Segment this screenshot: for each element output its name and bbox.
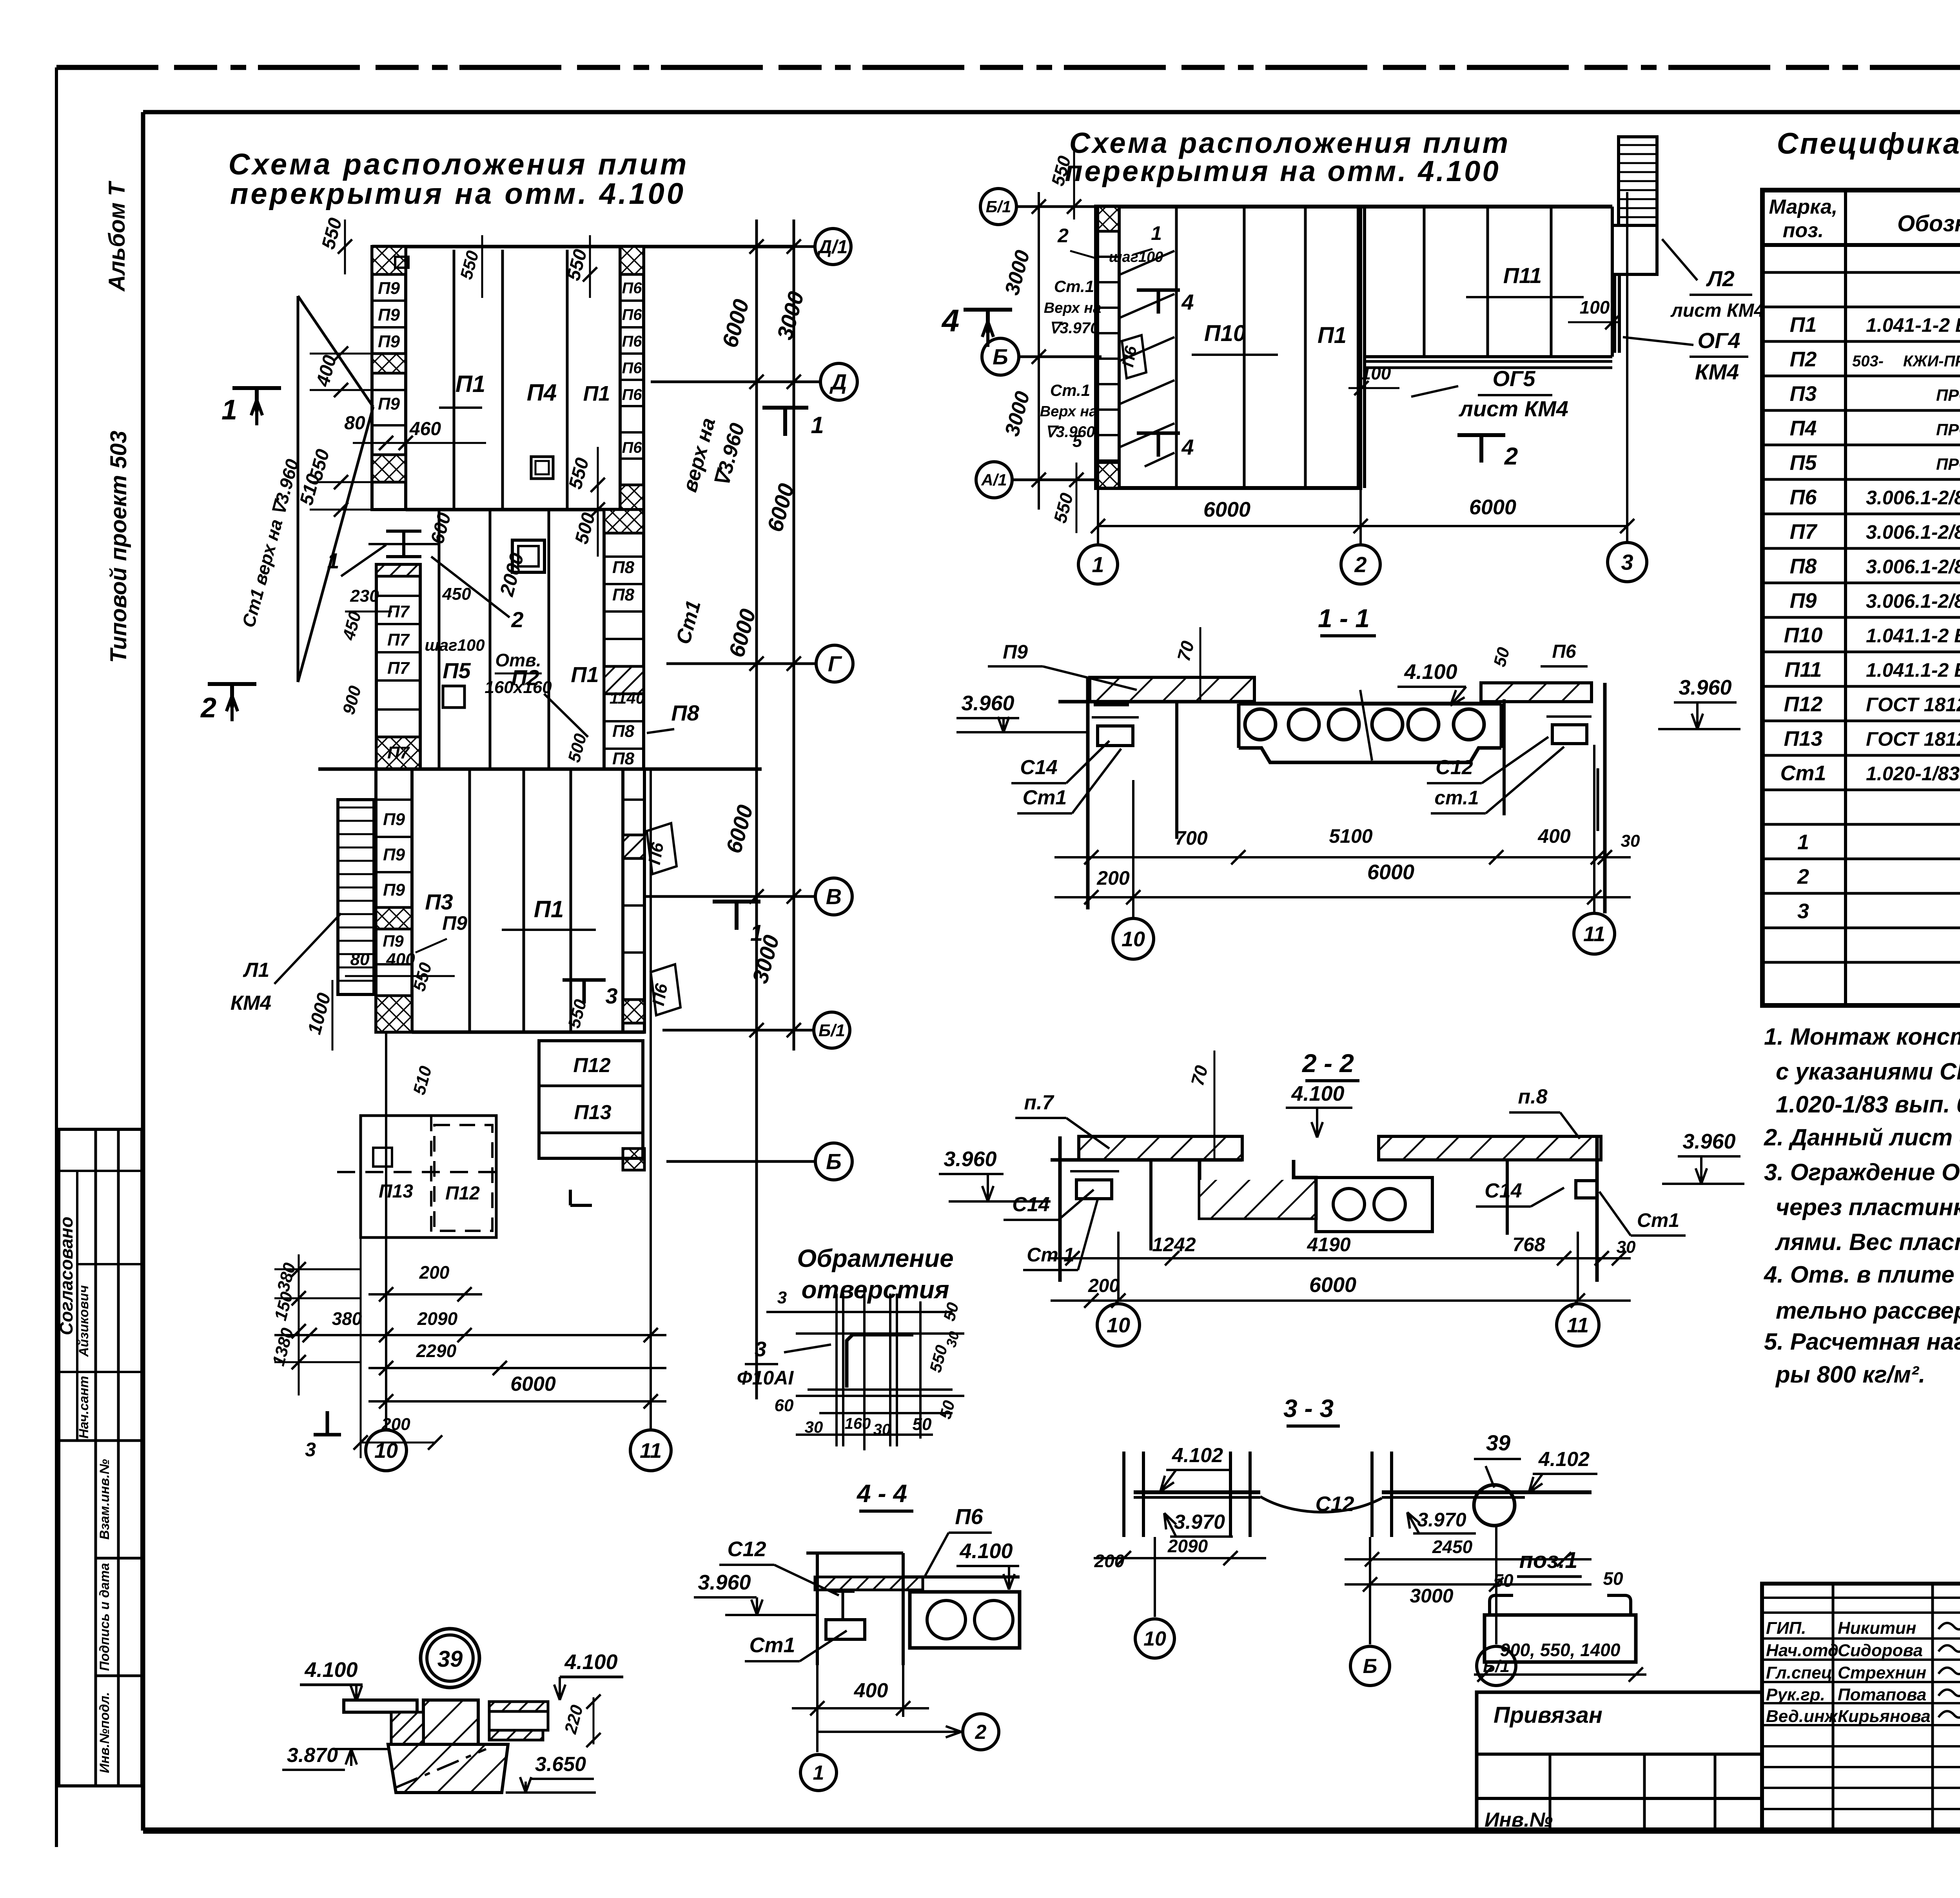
spec table column lines bbox=[1844, 190, 1847, 1005]
axis circle G bbox=[816, 645, 853, 682]
slab edge at axis G bbox=[318, 768, 762, 771]
s22 right wall verticals bbox=[1595, 1136, 1599, 1282]
svg-text:100: 100 bbox=[1580, 297, 1610, 318]
svg-text:П6: П6 bbox=[622, 386, 642, 403]
detail39 lower trapezoid bbox=[388, 1744, 508, 1793]
svg-text:10: 10 bbox=[1107, 1314, 1130, 1337]
slab bottom edge third bay bbox=[412, 1031, 644, 1034]
svg-text:П6: П6 bbox=[622, 333, 642, 350]
plan2 axis line B/1 bbox=[1016, 205, 1102, 208]
svg-text:Ст1: Ст1 bbox=[1780, 761, 1826, 785]
plan2 slab outline bbox=[1096, 207, 1360, 488]
svg-text:1.020-1/83 Вып.7-1: 1.020-1/83 Вып.7-1 bbox=[1866, 762, 1960, 784]
s11 left wall verticals bbox=[1086, 677, 1090, 909]
svg-text:с указаниями СНиПШ-16-80, СНиП: с указаниями СНиПШ-16-80, СНиПШ-15-76 се… bbox=[1776, 1058, 1960, 1085]
s22 floor line left bbox=[1051, 1158, 1242, 1162]
svg-text:1.041.1-2 Вып.1: 1.041.1-2 Вып.1 bbox=[1866, 624, 1960, 646]
svg-text:3.006.1-2/82 Вып.1-2: 3.006.1-2/82 Вып.1-2 bbox=[1866, 590, 1960, 612]
svg-text:4.102: 4.102 bbox=[1172, 1444, 1223, 1467]
svg-text:КМ4: КМ4 bbox=[230, 992, 271, 1014]
svg-text:Взам.инв.№: Взам.инв.№ bbox=[97, 1459, 112, 1540]
svg-text:Кирьянова: Кирьянова bbox=[1838, 1707, 1931, 1726]
svg-text:6000: 6000 bbox=[1203, 498, 1250, 521]
svg-text:Отв.: Отв. bbox=[495, 650, 541, 670]
s33 C12 sag line bbox=[1260, 1497, 1382, 1512]
svg-text:200: 200 bbox=[419, 1262, 450, 1283]
detail39 right slab with bands bbox=[489, 1702, 548, 1711]
svg-text:Б: Б bbox=[826, 1149, 842, 1174]
svg-text:Ст.1: Ст.1 bbox=[1054, 277, 1094, 296]
plan2 axis circle 1 bbox=[1078, 545, 1118, 584]
axis circle 11 left plan bbox=[630, 1430, 671, 1471]
svg-text:2 - 2: 2 - 2 bbox=[1301, 1049, 1354, 1078]
svg-text:Обозначение: Обозначение bbox=[1897, 211, 1960, 236]
svg-text:768: 768 bbox=[1512, 1234, 1545, 1256]
s11 hollow core slab body bbox=[1239, 702, 1501, 706]
svg-text:3.960: 3.960 bbox=[1679, 676, 1731, 699]
svg-text:С14: С14 bbox=[1012, 1193, 1049, 1216]
svg-text:1: 1 bbox=[1151, 222, 1162, 244]
svg-text:п.8: п.8 bbox=[1518, 1085, 1547, 1108]
svg-text:Потапова: Потапова bbox=[1838, 1685, 1926, 1704]
plan2 cut marker 4 inner bottom bbox=[1137, 432, 1180, 435]
s11 right beam seat bbox=[1552, 725, 1587, 744]
svg-text:ОГ4: ОГ4 bbox=[1697, 328, 1740, 353]
s11 left beam seat bbox=[1094, 703, 1129, 706]
svg-text:П9: П9 bbox=[1003, 641, 1028, 663]
svg-text:Альбом Т: Альбом Т bbox=[104, 180, 130, 292]
svg-text:3.970: 3.970 bbox=[1174, 1511, 1225, 1533]
svg-text:П6: П6 bbox=[622, 359, 642, 377]
spec table outer frame bbox=[1762, 190, 1960, 1005]
svg-text:П7: П7 bbox=[387, 630, 410, 650]
svg-text:4.100: 4.100 bbox=[959, 1539, 1013, 1563]
svg-text:поз.: поз. bbox=[1783, 219, 1824, 242]
plan2 cut marker 4 inner top bbox=[1137, 289, 1180, 292]
s44 wall verticals bbox=[816, 1553, 819, 1665]
plan2 axis circle A/1 bbox=[976, 462, 1012, 498]
s11 axis verticals bbox=[1132, 780, 1134, 918]
section cut marker 3 bbox=[563, 978, 606, 982]
s22 left beam seat bbox=[1076, 1180, 1112, 1199]
svg-text:11: 11 bbox=[640, 1439, 662, 1463]
svg-text:Б/1: Б/1 bbox=[818, 1021, 845, 1040]
small hatch square mid wall bbox=[377, 910, 393, 926]
plan2 axis line B bbox=[1018, 356, 1102, 358]
svg-text:С12: С12 bbox=[1315, 1492, 1354, 1516]
s11 axis circle 10 bbox=[1113, 918, 1154, 959]
P12 P13 block bbox=[539, 1041, 643, 1158]
sheet outer border top bbox=[56, 65, 1960, 70]
s44 hatch on slab top bbox=[903, 1575, 1020, 1579]
svg-text:п.7: п.7 bbox=[1024, 1091, 1054, 1114]
svg-text:1: 1 bbox=[327, 548, 339, 573]
plan2 left dim vertical bbox=[1038, 192, 1040, 510]
margin approval table bbox=[59, 1129, 142, 1786]
plan2 stairs top right bbox=[1619, 137, 1657, 225]
plan2 stairs lower part bbox=[1612, 225, 1657, 274]
svg-text:С12: С12 bbox=[1436, 756, 1473, 779]
s44 stolik assembly bbox=[826, 1620, 865, 1639]
hatch cells P9 lower bbox=[376, 907, 412, 929]
axis line D/1 bbox=[651, 245, 815, 248]
svg-text:Сидорова: Сидорова bbox=[1838, 1641, 1923, 1660]
svg-text:П1: П1 bbox=[1318, 323, 1347, 348]
plan2 P1 right edge double line bbox=[1357, 207, 1360, 488]
svg-text:через пластинки -: через пластинки - bbox=[1776, 1194, 1960, 1220]
s11 left floor hatch band bbox=[1090, 677, 1254, 702]
svg-text:2: 2 bbox=[1354, 552, 1367, 577]
s22 axis circle 10 bbox=[1097, 1304, 1140, 1346]
svg-text:П6: П6 bbox=[649, 982, 671, 1007]
plan2 rotated label P6 in wall bbox=[1122, 335, 1146, 378]
svg-text:Гл.спец: Гл.спец bbox=[1766, 1663, 1832, 1682]
svg-text:30: 30 bbox=[873, 1421, 891, 1438]
svg-text:900, 550, 1400: 900, 550, 1400 bbox=[1500, 1640, 1621, 1660]
axis line B bbox=[666, 1160, 816, 1163]
svg-text:1140: 1140 bbox=[610, 689, 645, 707]
s44 axis line to circle 2 bbox=[817, 1731, 964, 1733]
svg-text:3.960: 3.960 bbox=[698, 1571, 751, 1594]
svg-text:Айзикович: Айзикович bbox=[76, 1285, 91, 1357]
svg-text:П6: П6 bbox=[1790, 485, 1817, 509]
svg-text:4: 4 bbox=[1181, 290, 1194, 314]
svg-text:П1: П1 bbox=[1790, 313, 1817, 336]
svg-text:4.102: 4.102 bbox=[1538, 1448, 1590, 1471]
axis circle B bbox=[815, 1143, 852, 1180]
svg-text:3: 3 bbox=[1797, 899, 1809, 923]
svg-text:2: 2 bbox=[975, 1721, 987, 1744]
svg-text:1: 1 bbox=[811, 412, 824, 438]
svg-text:В: В bbox=[826, 884, 842, 909]
svg-text:П5: П5 bbox=[1790, 451, 1817, 474]
verticals to axis circles 10 11 bbox=[385, 1032, 387, 1429]
svg-text:П1: П1 bbox=[456, 371, 486, 397]
svg-text:4: 4 bbox=[1181, 435, 1194, 459]
svg-text:П9: П9 bbox=[383, 880, 405, 900]
svg-text:перекрытия на отм. 4.100: перекрытия на отм. 4.100 bbox=[230, 177, 686, 210]
svg-text:6000: 6000 bbox=[1309, 1273, 1356, 1297]
wall hatch right low bbox=[620, 485, 644, 510]
svg-text:2: 2 bbox=[200, 692, 216, 724]
svg-text:4 - 4: 4 - 4 bbox=[856, 1479, 907, 1508]
svg-text:П1: П1 bbox=[583, 382, 610, 405]
svg-text:4.100: 4.100 bbox=[1404, 660, 1457, 684]
svg-text:400: 400 bbox=[854, 1679, 888, 1702]
svg-text:1: 1 bbox=[750, 920, 763, 946]
svg-text:2: 2 bbox=[1057, 225, 1069, 247]
svg-text:3: 3 bbox=[605, 983, 617, 1008]
svg-text:200: 200 bbox=[1094, 1551, 1125, 1571]
svg-text:Вед.инж: Вед.инж bbox=[1766, 1707, 1838, 1726]
svg-text:П7: П7 bbox=[387, 659, 410, 678]
svg-text:50: 50 bbox=[1603, 1568, 1623, 1589]
dim line 380 2090 bbox=[274, 1334, 666, 1336]
svg-text:4: 4 bbox=[941, 303, 960, 338]
P13 P12 dashed detail bbox=[361, 1116, 496, 1238]
s33 dims right bbox=[1345, 1558, 1592, 1560]
s33 circle 39 detail ring bbox=[1474, 1485, 1515, 1526]
hatch cells P8 wall bbox=[604, 510, 644, 533]
svg-text:Ст1: Ст1 bbox=[749, 1633, 795, 1657]
svg-text:400: 400 bbox=[386, 950, 415, 969]
svg-text:П9: П9 bbox=[383, 810, 405, 829]
wall hatch cell low left bbox=[372, 455, 406, 482]
svg-text:П3: П3 bbox=[1790, 382, 1817, 405]
detail 39 double circle bbox=[421, 1629, 479, 1688]
opening square in P4 bbox=[531, 457, 553, 479]
svg-text:100: 100 bbox=[1361, 363, 1391, 383]
plan2 cut marker 4 left bbox=[964, 308, 1012, 312]
svg-text:ОГ5: ОГ5 bbox=[1492, 366, 1535, 391]
svg-text:Верх на: Верх на bbox=[1044, 300, 1102, 316]
svg-text:П4: П4 bbox=[1790, 416, 1817, 440]
wall hatch cell top left bbox=[372, 247, 406, 274]
spec table rows bbox=[1762, 271, 1960, 274]
s22 left wall verticals bbox=[1058, 1136, 1062, 1282]
svg-text:С14: С14 bbox=[1020, 756, 1057, 779]
svg-text:3.870: 3.870 bbox=[287, 1744, 338, 1767]
svg-text:Ф10AI: Ф10AI bbox=[737, 1367, 794, 1389]
plan2 axis circle 2 bbox=[1341, 545, 1380, 584]
svg-text:10: 10 bbox=[374, 1439, 398, 1463]
svg-text:Подпись и дата: Подпись и дата bbox=[97, 1563, 112, 1671]
svg-text:50: 50 bbox=[1493, 1570, 1514, 1591]
svg-text:лист КМ4: лист КМ4 bbox=[1458, 396, 1568, 421]
s33 axis circle 10 bbox=[1154, 1537, 1156, 1617]
svg-text:3.960: 3.960 bbox=[944, 1147, 996, 1171]
s44 slab with circles bbox=[910, 1592, 1020, 1648]
right wall strip upper P6 bbox=[620, 247, 644, 510]
signature table bbox=[1762, 1584, 1960, 1831]
svg-text:4. Отв. в плите 160х160 про: 4. Отв. в плите 160х160 пробить по месту… bbox=[1764, 1261, 1960, 1288]
svg-text:П6: П6 bbox=[1552, 641, 1576, 662]
s22 slab piece with circles bbox=[1316, 1178, 1432, 1232]
s44 axis circle 1 bbox=[816, 1717, 818, 1752]
s44 dim 400 bbox=[816, 1665, 818, 1717]
svg-text:6000: 6000 bbox=[1367, 860, 1414, 884]
svg-text:П9: П9 bbox=[1790, 589, 1817, 612]
svg-text:П9: П9 bbox=[378, 305, 400, 325]
svg-text:П6: П6 bbox=[622, 439, 642, 456]
svg-text:П13: П13 bbox=[1784, 727, 1823, 750]
svg-text:2. Данный лист см. с листом: 2. Данный лист см. с листом КМ-4. bbox=[1764, 1124, 1960, 1150]
s22 right floor hatch band bbox=[1379, 1136, 1601, 1160]
s33 axis circle B bbox=[1369, 1537, 1371, 1644]
left wall strip P9 lower bbox=[376, 769, 412, 1032]
svg-text:П8: П8 bbox=[1790, 554, 1817, 578]
svg-text:3.960: 3.960 bbox=[1682, 1130, 1735, 1153]
s22 left floor hatch band bbox=[1079, 1136, 1242, 1160]
sheet inner border top bbox=[143, 110, 1960, 114]
svg-text:700: 700 bbox=[1175, 827, 1208, 849]
axis circle D/1 bbox=[815, 229, 851, 265]
axis circle 10 left plan bbox=[366, 1430, 407, 1471]
svg-text:П4: П4 bbox=[527, 379, 557, 406]
svg-text:П8: П8 bbox=[612, 722, 635, 741]
svg-text:ГОСТ 18124-75: ГОСТ 18124-75 bbox=[1866, 693, 1960, 715]
s44 slab hatch band bbox=[815, 1577, 923, 1590]
svg-text:2090: 2090 bbox=[417, 1308, 458, 1329]
slab divider lines second bay bbox=[438, 510, 441, 769]
sheet inner border left bbox=[141, 112, 145, 1831]
svg-text:60: 60 bbox=[775, 1396, 794, 1415]
svg-text:П9: П9 bbox=[442, 912, 467, 934]
svg-text:П6: П6 bbox=[955, 1504, 983, 1529]
svg-text:П11: П11 bbox=[1785, 658, 1822, 681]
axis line V bbox=[644, 895, 816, 898]
svg-text:Схема расположения плит: Схема расположения плит bbox=[229, 148, 689, 181]
svg-text:шаг100: шаг100 bbox=[1109, 249, 1163, 265]
svg-text:450: 450 bbox=[442, 584, 471, 604]
svg-text:3: 3 bbox=[1621, 550, 1633, 575]
s11 right far wall bbox=[1597, 768, 1599, 831]
svg-text:11: 11 bbox=[1583, 922, 1605, 946]
svg-text:3: 3 bbox=[755, 1337, 766, 1361]
left wall strip P7 bbox=[376, 564, 420, 769]
svg-text:ст.1: ст.1 bbox=[1434, 787, 1479, 809]
svg-text:2: 2 bbox=[1797, 865, 1809, 888]
svg-text:5: 5 bbox=[1073, 432, 1082, 451]
svg-text:3.006.1-2/82 Вып.1-2: 3.006.1-2/82 Вып.1-2 bbox=[1866, 521, 1960, 543]
s22 axis circle 11 bbox=[1557, 1304, 1599, 1346]
svg-text:∇3.960: ∇3.960 bbox=[1045, 423, 1095, 441]
svg-text:4.100: 4.100 bbox=[1291, 1082, 1344, 1105]
slab bottom edge upper bay bbox=[406, 508, 620, 512]
slab divider lines upper bay bbox=[453, 250, 456, 510]
svg-text:П9: П9 bbox=[378, 279, 400, 298]
svg-text:Инв.№: Инв.№ bbox=[1485, 1809, 1553, 1831]
svg-text:1 - 1: 1 - 1 bbox=[1318, 604, 1370, 633]
plan2 slab dividers bbox=[1175, 207, 1178, 488]
svg-text:Л2: Л2 bbox=[1706, 266, 1735, 291]
svg-text:Стрехнин: Стрехнин bbox=[1838, 1663, 1926, 1682]
stairs hatch block L1 bbox=[338, 800, 374, 994]
svg-text:П12: П12 bbox=[573, 1054, 610, 1077]
svg-text:поз.1: поз.1 bbox=[1519, 1548, 1578, 1573]
s33 dims left bbox=[1094, 1557, 1266, 1559]
svg-text:Нач.сант: Нач.сант bbox=[76, 1376, 91, 1439]
right wall strip P8 bbox=[604, 510, 644, 769]
svg-text:отверстия: отверстия bbox=[801, 1276, 949, 1304]
svg-text:П11: П11 bbox=[1503, 263, 1542, 288]
svg-text:А/1: А/1 bbox=[981, 471, 1007, 489]
plan2 P11 slab group bbox=[1365, 355, 1612, 358]
s11 dim line 2 bbox=[1054, 896, 1631, 898]
axis circle D bbox=[820, 363, 857, 400]
svg-text:П3: П3 bbox=[425, 889, 453, 914]
svg-text:1: 1 bbox=[1797, 830, 1809, 854]
slab divider lines third bay bbox=[468, 769, 471, 1032]
right wall strip third bay bbox=[623, 769, 644, 1032]
plan2 top edge full bbox=[1096, 205, 1612, 209]
svg-text:ГОСТ 18124-75: ГОСТ 18124-75 bbox=[1866, 728, 1960, 750]
s11 floor line left bbox=[1058, 700, 1254, 704]
svg-text:Ст1: Ст1 bbox=[1637, 1209, 1679, 1231]
detail obramlenie grid bbox=[796, 1311, 953, 1313]
svg-text:1: 1 bbox=[221, 394, 237, 426]
svg-text:Согласовано: Согласовано bbox=[56, 1217, 76, 1335]
svg-text:Ст.1: Ст.1 bbox=[1050, 381, 1090, 399]
s11 slab circles bbox=[1245, 709, 1276, 740]
slanted labels P6 right bbox=[647, 823, 677, 874]
svg-text:КЖИ-ПРС56,15-16АтVТ-1: КЖИ-ПРС56,15-16АтVТ-1 bbox=[1903, 352, 1960, 370]
marker T1 bbox=[713, 900, 760, 904]
svg-text:3000: 3000 bbox=[1410, 1585, 1453, 1607]
svg-text:2290: 2290 bbox=[416, 1341, 457, 1361]
detail39 left slab bar bbox=[344, 1700, 417, 1712]
s44 wall top line bbox=[806, 1551, 903, 1555]
s11 right floor hatch band bbox=[1481, 683, 1592, 702]
svg-text:тельно рассверлив их по ко: тельно рассверлив их по контуру. bbox=[1776, 1297, 1960, 1324]
s22 dim line 2 bbox=[1051, 1299, 1631, 1302]
svg-text:П12: П12 bbox=[445, 1183, 480, 1204]
svg-text:2: 2 bbox=[511, 607, 523, 632]
s33 right columns bbox=[1370, 1452, 1374, 1537]
s11 dim line 1 bbox=[1054, 856, 1631, 858]
svg-text:П10: П10 bbox=[1204, 321, 1246, 346]
corner mark bbox=[569, 1190, 572, 1205]
detail rebar bent bar bbox=[847, 1335, 913, 1388]
svg-text:80: 80 bbox=[344, 413, 365, 434]
marker 3T bbox=[314, 1433, 341, 1437]
svg-text:1: 1 bbox=[1092, 552, 1104, 577]
svg-text:5. Расчетная нагрузка на пе: 5. Расчетная нагрузка на перекрытие вент… bbox=[1764, 1328, 1960, 1355]
dim line 2290 bbox=[368, 1367, 666, 1369]
s33 right horizontal bar bbox=[1382, 1490, 1592, 1494]
svg-text:П1: П1 bbox=[534, 896, 564, 922]
svg-text:3.006.1-2/82 Вып.1-2: 3.006.1-2/82 Вып.1-2 bbox=[1866, 555, 1960, 577]
svg-text:С12: С12 bbox=[727, 1537, 766, 1561]
svg-text:3: 3 bbox=[777, 1288, 787, 1307]
svg-text:Б: Б bbox=[993, 345, 1008, 369]
svg-text:1: 1 bbox=[813, 1762, 824, 1784]
svg-text:80: 80 bbox=[350, 950, 370, 969]
svg-text:П9: П9 bbox=[383, 845, 405, 864]
spec table header row line bbox=[1762, 243, 1960, 247]
s22 right beam seat bbox=[1576, 1181, 1597, 1198]
svg-text:503-: 503- bbox=[1852, 352, 1884, 370]
svg-text:лист КМ4: лист КМ4 bbox=[1670, 300, 1764, 321]
opening square with frame bbox=[512, 540, 544, 572]
svg-text:ГИП.: ГИП. bbox=[1766, 1619, 1806, 1638]
svg-text:3.006.1-2/82 Вып.1-2: 3.006.1-2/82 Вып.1-2 bbox=[1866, 486, 1960, 508]
detail39 center hatched pier bbox=[372, 1700, 423, 1744]
s33 left horizontal bar bbox=[1134, 1490, 1260, 1494]
s33 left columns bbox=[1122, 1452, 1125, 1537]
svg-text:230: 230 bbox=[350, 586, 379, 606]
s33 axis circle B/1 bbox=[1495, 1526, 1497, 1644]
svg-text:П6: П6 bbox=[645, 841, 668, 866]
svg-text:2: 2 bbox=[1504, 443, 1518, 470]
detail poz1 hooks bbox=[1490, 1595, 1513, 1615]
svg-text:1.041-1-2 Вып.1: 1.041-1-2 Вып.1 bbox=[1866, 314, 1960, 336]
svg-text:Никитин: Никитин bbox=[1838, 1619, 1916, 1638]
svg-text:Типовой проект 503: Типовой проект 503 bbox=[106, 431, 131, 663]
svg-text:Верх на: Верх на bbox=[1040, 403, 1098, 420]
plan2 axis line A/1 bbox=[1012, 479, 1102, 481]
svg-text:П8: П8 bbox=[612, 749, 635, 768]
svg-text:3. Ограждение ОГ5 крепить к: 3. Ограждение ОГ5 крепить к ригелю, ОГ6 … bbox=[1764, 1159, 1960, 1185]
svg-text:30: 30 bbox=[1621, 831, 1640, 851]
svg-text:1242: 1242 bbox=[1152, 1234, 1196, 1256]
svg-text:10: 10 bbox=[1143, 1628, 1166, 1650]
svg-text:4.100: 4.100 bbox=[304, 1658, 358, 1682]
left wall strip upper bbox=[372, 247, 406, 510]
svg-text:3.650: 3.650 bbox=[535, 1753, 586, 1776]
svg-text:П9: П9 bbox=[378, 332, 400, 351]
wall hatch at B axis bbox=[623, 1149, 644, 1170]
